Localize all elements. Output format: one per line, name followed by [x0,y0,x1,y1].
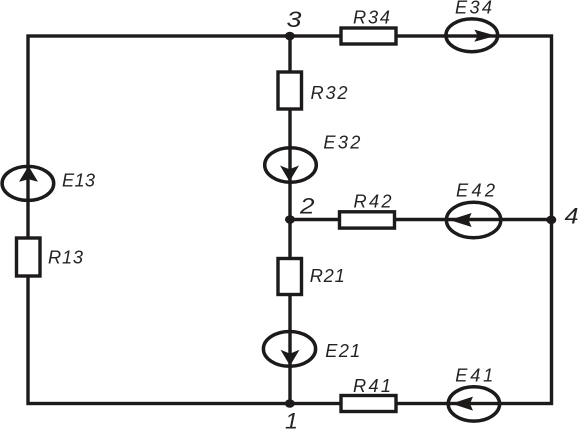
svg-text:R41: R41 [353,376,391,396]
arrow of E32 (points down) [280,166,299,182]
node 3 (junction dot) [285,32,295,41]
svg-text:E41: E41 [455,366,493,386]
resistor R34 [341,28,396,44]
svg-text:E21: E21 [325,341,360,361]
source E34 (circle) [446,19,498,52]
svg-text:R21: R21 [310,266,345,286]
svg-text:3: 3 [287,7,303,32]
svg-text:R32: R32 [311,83,348,103]
svg-text:R13: R13 [48,248,83,268]
wire outer loop (top, right, bottom, left) [28,36,552,404]
svg-text:E32: E32 [323,133,360,153]
node 4 (junction dot) [546,216,556,225]
svg-text:R42: R42 [354,192,392,212]
wire middle vertical (node 3 to node 1) [288,36,291,404]
svg-text:4: 4 [565,204,578,229]
svg-text:E42: E42 [456,181,495,201]
svg-text:E34: E34 [455,0,492,18]
arrow of E34 (points right) [474,30,496,42]
source E21 (circle) [263,332,315,367]
svg-text:E13: E13 [62,171,95,191]
source E13 (circle) [2,166,54,200]
resistor R42 [340,212,395,228]
resistor R41 [341,396,396,412]
arrow of E21 (points down) [281,350,300,366]
wire node 2 to node 4 [290,218,552,221]
arrow of E41 (points left) [452,397,474,411]
source E42 (circle) [446,202,500,238]
node 1 (junction dot) [285,399,295,408]
resistor R21 [278,259,302,295]
source E41 (circle) [448,387,499,421]
resistor R13 [17,238,41,276]
source E32 (circle) [265,148,317,182]
node 2 (junction dot) [285,215,295,224]
arrow of E42 (points left) [450,213,472,227]
svg-text:R34: R34 [353,8,390,28]
svg-text:1: 1 [285,409,298,429]
svg-text:2: 2 [299,194,315,219]
arrow of E13 (points up) [19,166,38,182]
resistor R32 [278,72,302,109]
